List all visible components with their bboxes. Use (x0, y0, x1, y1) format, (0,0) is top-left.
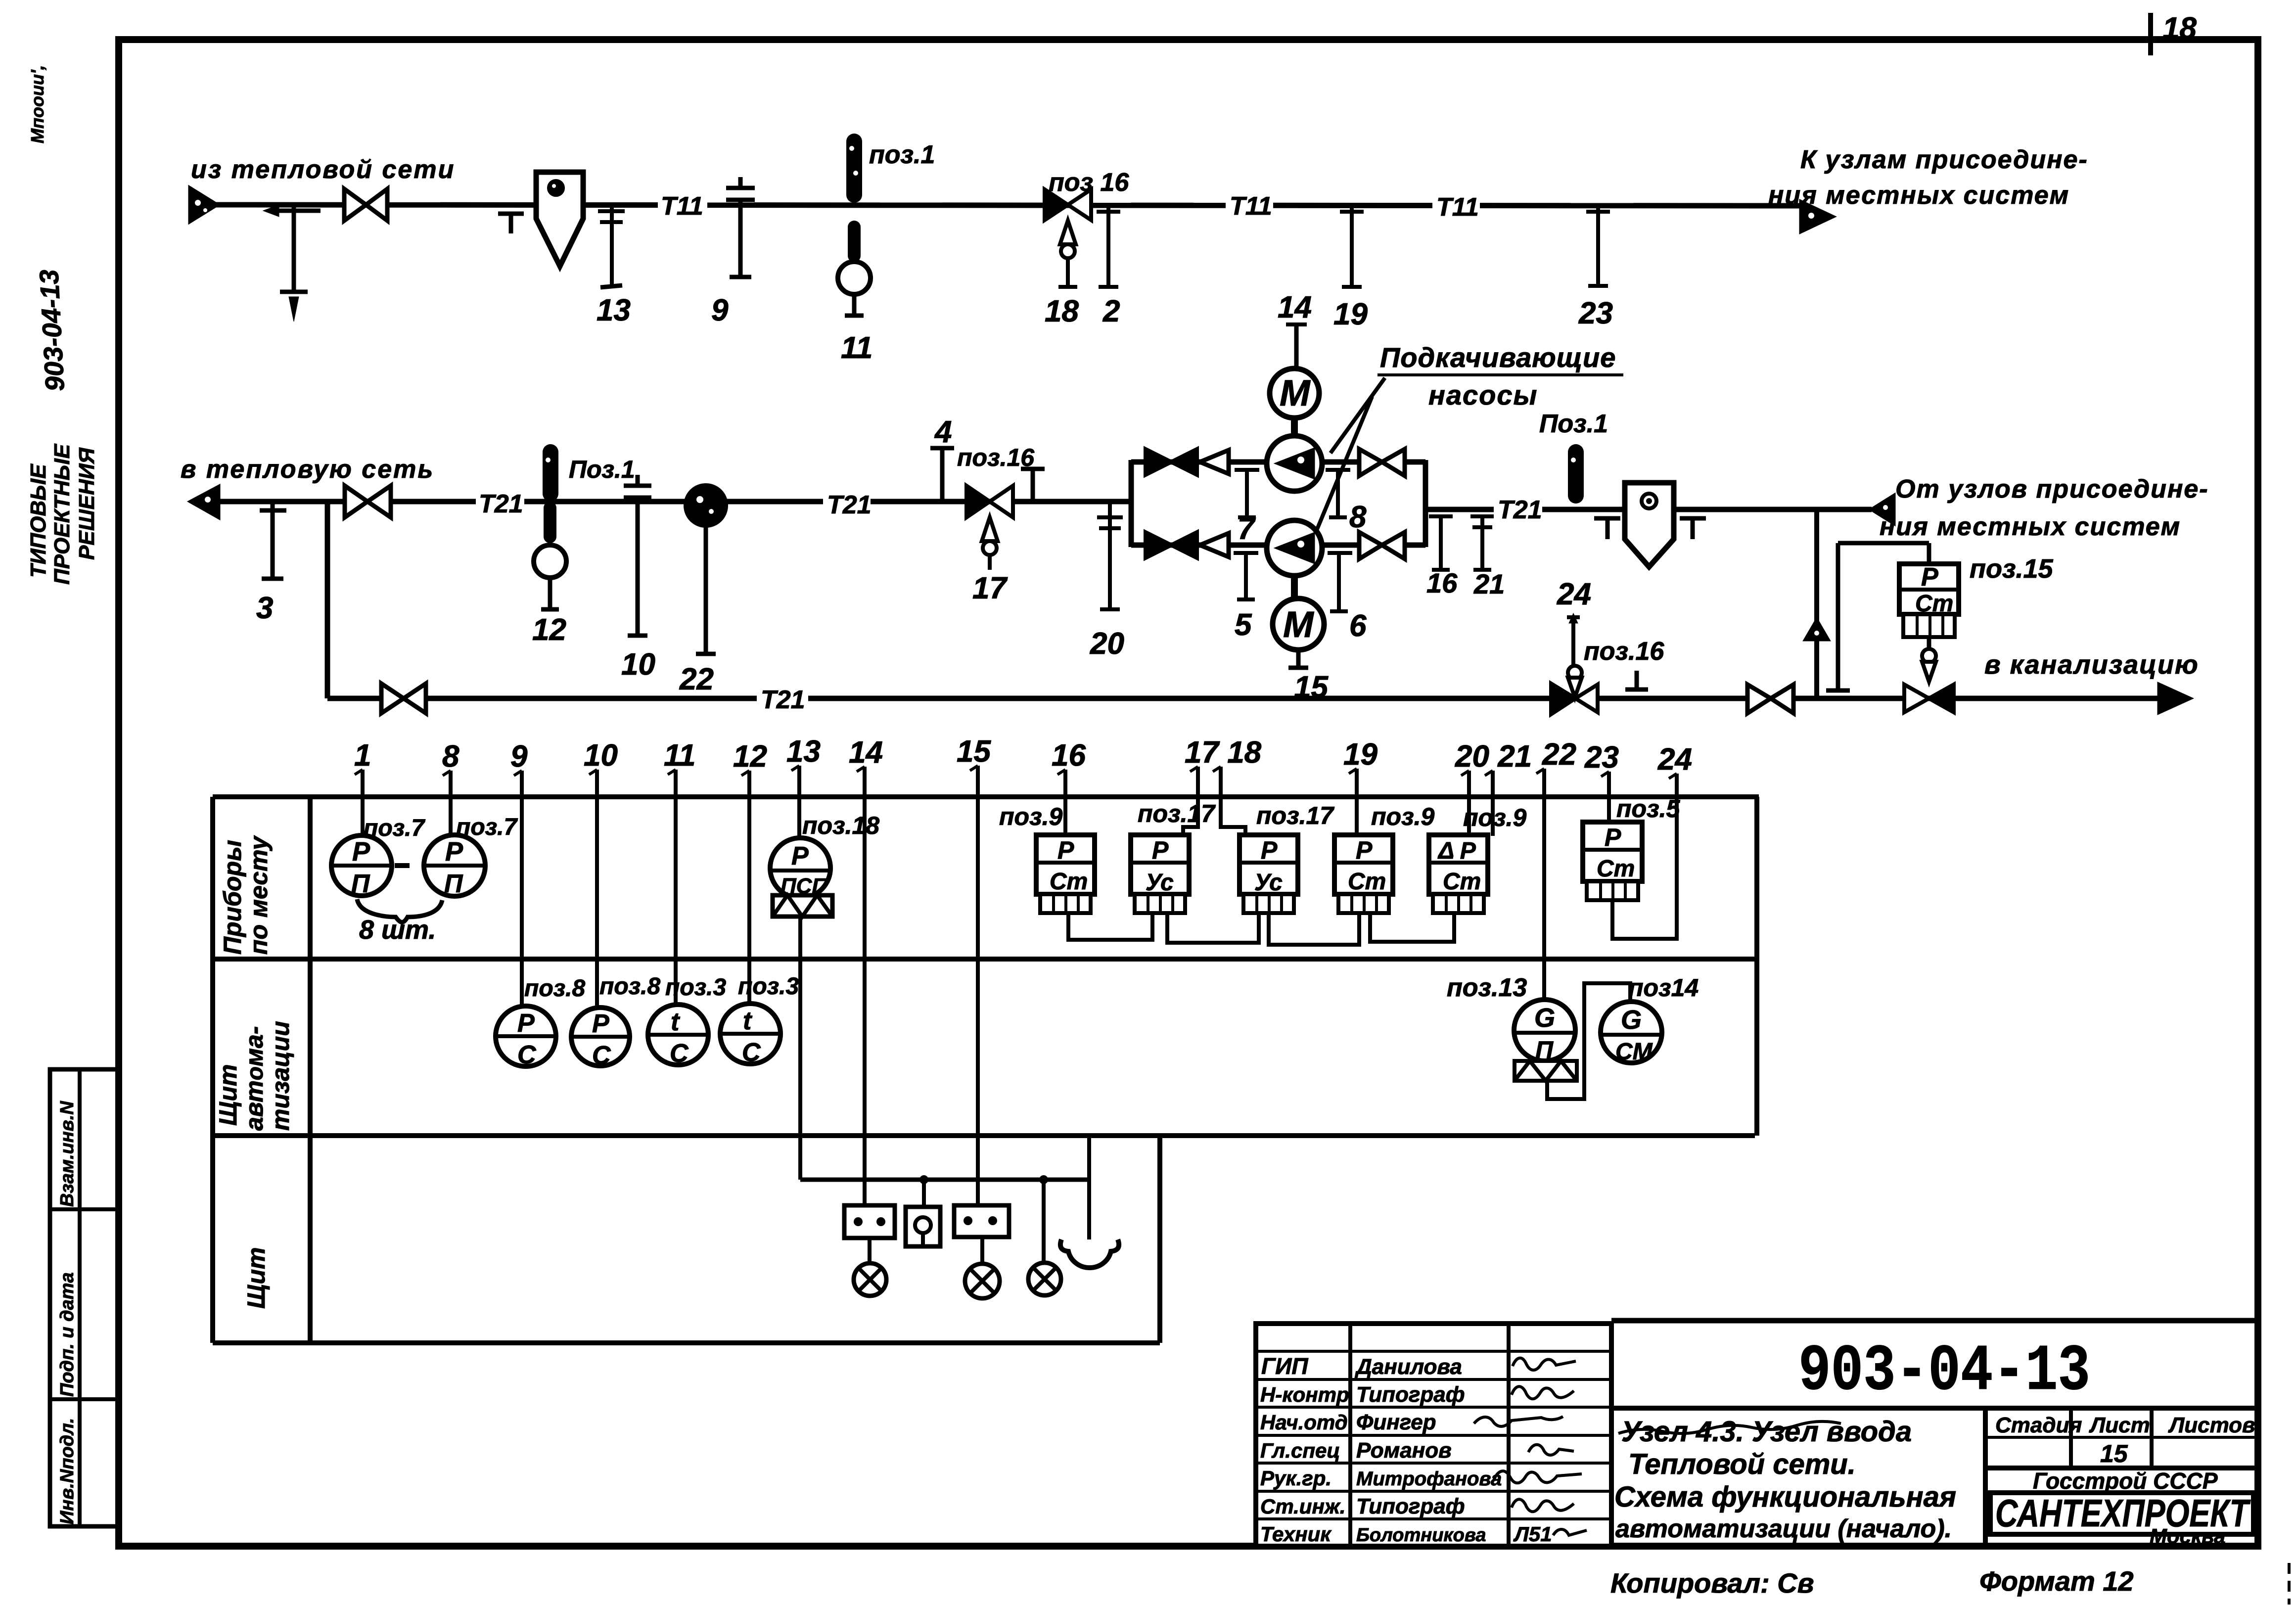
table bottom line L4 (213, 1340, 1160, 1345)
thermometer поз.1 on T21 (543, 444, 558, 502)
flow recorder G/П поз.13 (1514, 1000, 1577, 1081)
staff row Ст.инж. Типограф (1260, 1494, 1574, 1518)
svg-text:Подп. и дата: Подп. и дата (57, 1272, 78, 1397)
recorder П СГ поз.18 (770, 838, 832, 917)
svg-text:17: 17 (972, 571, 1008, 605)
svg-text:17 18: 17 18 (1185, 735, 1262, 770)
svg-text:поз.16: поз.16 (1584, 637, 1664, 666)
label поз 16 on T11 valve (1049, 168, 1129, 197)
bottom right margin tick (2288, 1563, 2291, 1605)
svg-text:1: 1 (354, 738, 371, 773)
label поз.13 (1447, 973, 1527, 1002)
label 24 for drain control valve (1557, 577, 1591, 611)
header number 11 (664, 738, 695, 788)
svg-text:20: 20 (1090, 627, 1124, 661)
table line L2 (213, 957, 1759, 962)
filter on return line (1625, 483, 1674, 567)
label поз.9 box1 (999, 803, 1062, 830)
label поз.17 box3 (1256, 802, 1334, 829)
svg-text:автоматизации (начало).: автоматизации (начало). (1615, 1514, 1952, 1543)
signal lamp 1 (854, 1238, 886, 1296)
tap 19 (1333, 205, 1368, 331)
local thermometer 12 below T21 (532, 502, 566, 647)
wire 1 (361, 788, 365, 835)
table line L3 (213, 1133, 1755, 1138)
staff row Н.контр Типограф (1260, 1382, 1574, 1407)
svg-text:в тепловую сеть: в тепловую сеть (181, 455, 434, 484)
mud trap (грязевик) on T11 (536, 172, 583, 266)
svg-text:5: 5 (1235, 608, 1252, 642)
label поз.8 circle2 (599, 973, 660, 1000)
svg-text:М: М (1280, 372, 1311, 413)
pump manifold right rail (1423, 460, 1428, 547)
svg-text:Формат 12: Формат 12 (1979, 1565, 2134, 1597)
instrument box 1 P/Ст (1036, 835, 1095, 913)
left stamp column boxes (50, 1069, 119, 1526)
staff row Гл.спец Романов (1260, 1438, 1574, 1463)
label поз.15 (1970, 554, 2054, 584)
motor M1 (1270, 368, 1319, 436)
svg-text:Приборы: Приборы (219, 840, 246, 955)
svg-text:Р: Р (592, 1009, 609, 1038)
wire 14 (863, 785, 867, 1205)
line label Т21 third (1494, 495, 1542, 524)
outlet arrow to sewer (2158, 684, 2191, 713)
three-way control valve 17 on T21 (966, 486, 1013, 605)
header number 14 (849, 735, 883, 785)
actuator stem поз.15 to drain valve (1927, 637, 1931, 651)
svg-text:Болотникова: Болотникова (1356, 1525, 1486, 1546)
svg-text:15: 15 (957, 734, 991, 769)
line label Т11 first (658, 190, 707, 221)
flow arrow and drain tap on T11 (263, 205, 321, 321)
svg-text:ГИП: ГИП (1261, 1353, 1308, 1379)
svg-text:19: 19 (1333, 297, 1368, 331)
svg-text:Ст.инж.: Ст.инж. (1260, 1495, 1345, 1518)
svg-text:10: 10 (584, 738, 618, 773)
svg-text:поз.13: поз.13 (1447, 973, 1527, 1002)
svg-text:13: 13 (597, 293, 631, 327)
staff row Техник Болотникова (1260, 1522, 1587, 1546)
footer Формат 12 (1979, 1565, 2134, 1597)
label Поз.1 right (1539, 410, 1608, 438)
svg-text:Ус: Ус (1146, 870, 1174, 896)
svg-text:13: 13 (786, 734, 821, 769)
svg-text:Р: Р (1356, 836, 1373, 864)
left margin rotated text РЕШЕНИЯ (75, 447, 99, 560)
label из тепловой сети (191, 155, 455, 184)
svg-text:10: 10 (621, 647, 655, 682)
svg-text:22: 22 (1542, 737, 1576, 772)
svg-text:Т21: Т21 (1498, 496, 1542, 524)
wire 14 to pump motor (1278, 290, 1312, 368)
svg-text:поз.8: поз.8 (524, 975, 585, 1002)
svg-text:14: 14 (1278, 290, 1312, 324)
wire 9 (520, 789, 524, 1006)
tap 21 on T21 right (1470, 516, 1505, 599)
stamp label Подп. и дата (57, 1272, 78, 1397)
svg-text:903-04-13: 903-04-13 (1798, 1334, 2090, 1409)
svg-text:С: С (670, 1039, 689, 1068)
staff row Рук.гр. Митрофанова (1260, 1467, 1582, 1490)
connector G/П to G/СМ (1547, 983, 1630, 1099)
label поз.3 circle3 (665, 974, 726, 1001)
staff table frame (1256, 1324, 1611, 1546)
svg-text:4: 4 (934, 415, 952, 449)
line label Т11 second (1226, 190, 1273, 221)
svg-text:Ст: Ст (1348, 869, 1386, 895)
label К узлам присоедине- (1800, 145, 2088, 174)
switch block 1 (844, 1205, 895, 1238)
orifice tap 9 (711, 177, 755, 327)
label ния местных систем (1880, 512, 2181, 541)
svg-text:14: 14 (849, 735, 883, 770)
heat meter sensor 22 on T21 (679, 485, 726, 696)
svg-text:Т21: Т21 (827, 491, 872, 519)
svg-text:Р: Р (517, 1009, 535, 1038)
header number 22 (1536, 737, 1576, 787)
thermometer поз.1 on T11 (846, 134, 862, 203)
wire 23 (1607, 790, 1611, 821)
dash between gauges (395, 863, 410, 868)
svg-text:Ст: Ст (1050, 869, 1088, 895)
instrument box 4 P/Ст (1334, 835, 1393, 913)
inlet arrow from heat network (189, 187, 218, 223)
header number 1 (354, 738, 371, 788)
instrument box поз.15 P/Ст (1899, 563, 1959, 637)
svg-text:Инв.Nподл.: Инв.Nподл. (57, 1418, 78, 1524)
svg-text:насосы: насосы (1428, 379, 1538, 411)
wire 13 upper (797, 784, 801, 838)
label поз.9 box5 (1463, 804, 1526, 831)
gate valve on drain right (1747, 685, 1793, 713)
header number 24 (1657, 742, 1692, 791)
label поз.14 (1628, 974, 1699, 1002)
svg-text:Т11: Т11 (661, 192, 703, 221)
svg-text:Р: Р (1921, 563, 1938, 592)
local gauge P/П first (331, 835, 392, 898)
svg-text:Р: Р (445, 837, 463, 867)
svg-text:поз.15: поз.15 (1970, 554, 2054, 584)
svg-text:16: 16 (1052, 738, 1086, 773)
bus junction dot 2 (1039, 1175, 1048, 1184)
switch block 2 with lamp key (906, 1180, 940, 1246)
row label Щит (242, 1247, 270, 1309)
svg-text:Р: Р (1605, 824, 1621, 851)
upper branch pipe (1131, 459, 1425, 465)
header number 15 (957, 734, 991, 784)
svg-text:автома-: автома- (240, 1026, 268, 1131)
thermometer well T before mud trap (498, 214, 524, 233)
svg-text:Ус: Ус (1254, 870, 1283, 896)
logo Госстрой СССР САНТЕХПРОЕКТ (1990, 1468, 2253, 1548)
header number 12 (733, 739, 767, 789)
wire 10 (595, 788, 599, 1008)
wire 18 (1221, 785, 1245, 836)
header numbers 17 18 (1185, 735, 1262, 785)
label поз.16 on T21 valve (957, 444, 1035, 471)
signal lamp 3 (1028, 1180, 1061, 1295)
connector loop box3-box4 (1269, 913, 1359, 945)
line label Т21 first (476, 488, 524, 518)
svg-text:Гл.спец: Гл.спец (1260, 1439, 1340, 1462)
svg-text:СМ: СМ (1615, 1039, 1653, 1065)
wire 21 (1491, 789, 1495, 836)
motor M2 (1273, 576, 1329, 704)
left margin rotated note (27, 65, 47, 143)
svg-text:20 21: 20 21 (1455, 739, 1532, 774)
svg-text:из тепловой сети: из тепловой сети (191, 155, 455, 184)
connector loop box1-box2 (1068, 913, 1152, 940)
stage list cells (1985, 1408, 2258, 1468)
staff row ГИП Данилова (1261, 1353, 1576, 1379)
svg-text:Р: Р (352, 837, 370, 867)
svg-text:15: 15 (2100, 1440, 2128, 1468)
bus junction dot 1 (919, 1175, 928, 1184)
svg-text:Лист: Лист (2089, 1413, 2150, 1437)
left margin rotated text ПРОЕКТНЫЕ (50, 443, 74, 585)
svg-text:Р: Р (1057, 836, 1074, 864)
pump manifold left rail (1129, 460, 1134, 547)
branch wire down to drain line (325, 502, 330, 698)
svg-text:11: 11 (664, 738, 695, 773)
tap 4 above line (930, 415, 954, 502)
drain pipeline to sewer (327, 696, 2160, 701)
header number 10 (584, 738, 618, 788)
svg-text:8 шт.: 8 шт. (359, 915, 436, 945)
svg-text:12: 12 (532, 613, 566, 647)
local gauge P/П second (424, 835, 485, 898)
tap 1-mark after valve 17 (1021, 469, 1045, 502)
svg-text:поз.3: поз.3 (665, 974, 726, 1001)
header number 16 (1052, 738, 1086, 788)
svg-text:8: 8 (442, 739, 459, 774)
label в тепловую сеть (181, 455, 434, 484)
tap 3 (256, 502, 286, 625)
svg-text:Щит: Щит (242, 1247, 270, 1309)
svg-text:22: 22 (679, 662, 714, 696)
svg-text:Рук.гр.: Рук.гр. (1260, 1467, 1332, 1490)
svg-text:Типограф: Типограф (1356, 1494, 1465, 1518)
label поз.17 box2 (1138, 800, 1216, 827)
svg-text:по месту: по месту (245, 835, 273, 955)
tap 5 (1234, 553, 1258, 642)
svg-text:Поз.1: Поз.1 (1539, 410, 1608, 438)
page number 18 tick (2148, 13, 2153, 55)
svg-text:Р: Р (1152, 836, 1169, 864)
signal bus in panel row (800, 1178, 1089, 1182)
svg-text:Типограф: Типограф (1356, 1382, 1465, 1407)
tap 8 (1326, 470, 1367, 534)
svg-text:РЕШЕНИЯ: РЕШЕНИЯ (75, 447, 99, 560)
panel gauge t/C 3 (648, 1005, 708, 1068)
tap 23 (1578, 205, 1613, 330)
wire 12 (747, 789, 751, 1004)
svg-text:3: 3 (256, 591, 273, 625)
svg-text:С: С (592, 1041, 611, 1070)
inlet arrow from local systems (1871, 495, 1894, 524)
instrument box 6 P/Ст (1583, 822, 1642, 914)
label поз.7 first (364, 815, 425, 841)
footer Копировал (1610, 1567, 1814, 1599)
svg-text:Щит: Щит (214, 1064, 242, 1126)
staff row Нач.отд Фингер (1260, 1410, 1563, 1434)
svg-text:поз.18: поз.18 (802, 812, 879, 839)
lower branch pipe (1131, 543, 1425, 548)
connector loop box2-box3 (1167, 913, 1259, 943)
wire 15 (976, 784, 980, 1205)
upper branch valve and check valve (1146, 449, 1229, 475)
svg-text:поз.9: поз.9 (1463, 804, 1526, 831)
svg-text:поз.8: поз.8 (599, 973, 660, 1000)
svg-text:21: 21 (1473, 568, 1505, 599)
svg-text:Митрофанова: Митрофанова (1356, 1468, 1502, 1490)
svg-text:ния местных систем: ния местных систем (1768, 181, 2069, 210)
pressure tap 2 (1097, 205, 1120, 328)
header number 19 (1343, 737, 1378, 787)
svg-text:t: t (671, 1008, 681, 1036)
svg-text:Л51: Л51 (1513, 1522, 1552, 1546)
outlet arrow to heat network (189, 486, 219, 518)
svg-text:Δ Р: Δ Р (1437, 838, 1476, 864)
svg-text:16: 16 (1426, 567, 1458, 598)
svg-text:Схема функциональная: Схема функциональная (1614, 1481, 1956, 1513)
instrument box 2 P/Ус (1131, 835, 1189, 913)
svg-text:9: 9 (510, 739, 528, 774)
T mark left of filter (1594, 518, 1620, 539)
svg-text:К узлам присоедине-: К узлам присоедине- (1800, 145, 2088, 174)
wire 11 (674, 788, 678, 1005)
label От узлов присоедине- (1895, 475, 2209, 504)
svg-text:Взам.инв.N: Взам.инв.N (57, 1101, 78, 1207)
pump 1 (1267, 436, 1322, 491)
svg-text:Нач.отд: Нач.отд (1260, 1411, 1348, 1434)
svg-text:От узлов присоедине-: От узлов присоедине- (1895, 475, 2209, 504)
thermometer Поз.1 right (1568, 444, 1584, 504)
svg-text:поз.3: поз.3 (738, 973, 799, 1000)
gate valve on T11 inlet (344, 189, 387, 221)
header numbers 20 21 (1455, 739, 1532, 789)
wire 19 (1355, 787, 1359, 836)
svg-text:23: 23 (1578, 296, 1613, 330)
svg-text:19: 19 (1343, 737, 1378, 772)
table label divider (308, 797, 313, 1343)
header number 23 (1584, 740, 1619, 790)
svg-text:Фингер: Фингер (1356, 1410, 1436, 1434)
label в канализацию (1984, 650, 2199, 680)
lower branch valve and check valve (1146, 532, 1229, 558)
table left edge (210, 797, 215, 1343)
svg-text:23: 23 (1584, 740, 1619, 775)
svg-text:9: 9 (711, 293, 729, 327)
orifice tap 10 (621, 475, 655, 682)
table top line L1 (213, 794, 1759, 799)
header number 13 (786, 734, 821, 784)
panel gauge P/C 1 (496, 1006, 556, 1069)
lower branch outlet valve (1359, 532, 1405, 559)
svg-text:поз.1: поз.1 (869, 140, 935, 169)
svg-text:Подкачивающие: Подкачивающие (1380, 342, 1616, 373)
gate valve on drain left (381, 684, 426, 713)
drain line label Т21 (757, 684, 808, 714)
svg-text:2: 2 (1102, 294, 1120, 328)
tap 6 (1328, 553, 1367, 643)
panel row right edge (1157, 1136, 1162, 1343)
three-way valve under поз.15 (1904, 649, 1954, 712)
wire 22 (1542, 787, 1546, 1000)
svg-text:ПРОЕКТНЫЕ: ПРОЕКТНЫЕ (50, 443, 74, 585)
svg-text:G: G (1621, 1005, 1642, 1035)
label поз.18 (802, 812, 879, 839)
label Подкачивающие насосы (1317, 342, 1623, 530)
svg-text:тизации: тизации (267, 1021, 294, 1131)
gate valve on T21 (345, 486, 391, 517)
pressure tap 13 (597, 205, 631, 327)
svg-text:11: 11 (841, 331, 872, 365)
svg-text:поз.17: поз.17 (1256, 802, 1334, 829)
svg-text:7: 7 (1238, 512, 1256, 546)
svg-text:Р: Р (1261, 836, 1278, 864)
svg-text:М: М (1283, 604, 1314, 645)
wire 8 (449, 789, 453, 835)
stamp label Инв.N подл. (57, 1418, 78, 1524)
svg-text:ния местных систем: ния местных систем (1880, 512, 2181, 541)
svg-text:в канализацию: в канализацию (1984, 650, 2199, 680)
label поз.16 drain valve (1584, 637, 1664, 666)
svg-text:12: 12 (733, 739, 767, 774)
wire 20 (1467, 789, 1471, 836)
row label Щит автоматизации (214, 1021, 294, 1131)
pump 2 (1267, 520, 1322, 576)
svg-text:П: П (444, 870, 463, 898)
vertical link from return line to drain with check arrow (1803, 509, 1831, 698)
wire 13 lower to bus (798, 917, 802, 1180)
three-way control valve 18 on T11 (1045, 189, 1091, 328)
label поз.8 circle1 (524, 975, 585, 1002)
label поз.7 second (456, 814, 518, 840)
title text block (1614, 1416, 1956, 1543)
svg-text:С: С (742, 1038, 761, 1067)
wire 16 (1063, 788, 1067, 836)
svg-text:Данилова: Данилова (1354, 1355, 1462, 1379)
instrument box 3 P/Ус (1240, 835, 1298, 913)
three-way control valve 24 on drain (1551, 613, 1598, 714)
left margin rotated text ТИПОВЫЕ (26, 463, 50, 578)
svg-text:Копировал: Св: Копировал: Св (1610, 1567, 1814, 1599)
supply pipeline T11 main line (216, 205, 1803, 206)
svg-text:Романов: Романов (1356, 1438, 1452, 1463)
outlet arrow to local systems (1800, 201, 1834, 232)
label поз.5 box6 (1616, 795, 1680, 823)
T mark right of filter (1680, 518, 1706, 539)
return pipeline T21 right segment (1425, 507, 1872, 512)
svg-text:Т21: Т21 (479, 490, 523, 518)
stamp label Взам.инв.N (57, 1101, 78, 1207)
header number 8 (442, 739, 459, 789)
panel gauge t/C 4 (720, 1004, 781, 1067)
label поз.9 box4 (1371, 803, 1434, 830)
svg-text:Поз.1: Поз.1 (569, 456, 635, 483)
label поз.3 circle4 (738, 973, 799, 1000)
tap 7 (1235, 470, 1259, 546)
svg-text:поз.9: поз.9 (999, 803, 1062, 830)
bracket 8 шт (357, 899, 442, 945)
svg-text:поз.5: поз.5 (1616, 795, 1680, 823)
svg-text:Т11: Т11 (1230, 192, 1272, 221)
svg-text:Стадия: Стадия (1995, 1413, 2082, 1437)
line label Т21 second (823, 489, 872, 519)
wire 17 (1183, 785, 1198, 836)
